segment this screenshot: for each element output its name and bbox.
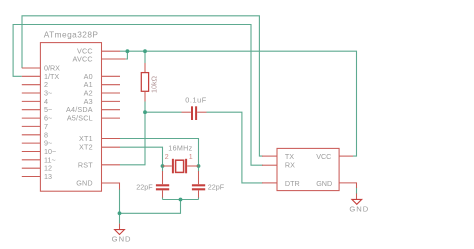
wire net RST: resistor bottom to junction [144,102,146,113]
capacitor C3 22pF bottom lead [198,190,200,197]
svg-text:22pF: 22pF [136,182,153,191]
wire net VCC rail [120,51,357,156]
junction dot resistor top/VCC [143,49,147,53]
resistor R1 bottom lead [144,91,146,101]
capacitor C1 0.1uF right stub [197,111,206,113]
svg-text:16MHz: 16MHz [168,144,192,153]
crystal Y1 left plate [172,159,174,174]
capacitor C3 22pF top lead [198,171,200,184]
ground symbol left triangle [115,230,125,235]
header J1 pin stub TX [262,155,277,157]
ground symbol left stem [119,224,121,230]
wire C2 bottom to gnd rail [162,197,164,200]
capacitor C2 22pF bottom lead [162,190,164,197]
capacitor C1 0.1uF right plate [195,106,197,120]
junction dot RST/0.1uF [143,110,147,114]
svg-text:AVCC: AVCC [73,55,93,64]
ground symbol right triangle [352,199,362,204]
wire net RST: junction to 0.1uF left [145,111,182,113]
crystal Y1 left stub [163,165,172,167]
svg-text:RST: RST [78,160,93,169]
resistor R1 body [141,73,148,92]
svg-text:XT2: XT2 [79,143,93,152]
svg-text:GND: GND [316,179,332,188]
wire C3 bottom to gnd rail [198,197,200,200]
crystal Y1 right stub [187,165,198,167]
wire crystal pin1 to C3 top [198,166,200,172]
wire IC GND pin down to junction [119,189,121,224]
serial header J1 body [277,148,339,190]
header J1 pin stub RX [262,164,277,166]
wire net XT1 to crystal pin 1 [120,139,199,167]
capacitor C1 0.1uF left stub [182,111,191,113]
wire crystal pin2 to C2 top [162,166,164,172]
wire header GND to ground symbol [356,188,358,195]
capacitor C2 22pF bottom plate [156,188,169,190]
junction dot crystal pin 2 [161,164,165,168]
svg-text:XT1: XT1 [79,134,93,143]
capacitor C3 22pF top plate [192,184,205,186]
wire gnd rail under caps [163,199,199,201]
wire net RST: junction down to RST pin [120,112,145,165]
wire AVCC riser [126,51,128,59]
wire net DTR: 0.1uF right to header DTR [207,112,264,183]
svg-text:VCC: VCC [316,152,331,161]
svg-text:2: 2 [165,154,169,161]
wire net RXIN (0/RX to header TX) [22,16,263,156]
capacitor C2 22pF top plate [156,184,169,186]
svg-text:22pF: 22pF [208,182,225,191]
svg-text:1: 1 [189,154,193,161]
svg-text:0.1uF: 0.1uF [185,96,206,105]
IC U1 ATmega328P body [40,43,101,192]
IC U1 left pin stubs (0/RX..13) [22,68,41,177]
junction dot gnd net [118,211,122,215]
capacitor C3 22pF bottom plate [192,188,205,190]
svg-text:10kΩ: 10kΩ [149,75,158,93]
svg-text:GND: GND [349,204,369,213]
ground symbol right stem [356,194,358,200]
svg-text:GND: GND [76,179,93,188]
header J1 pin stub DTR [262,182,277,184]
capacitor C1 0.1uF left plate [191,106,193,120]
crystal Y1 right plate [185,159,187,174]
svg-text:13: 13 [44,172,52,181]
junction dot crystal pin 1 [197,164,201,168]
junction dot cap gnd rail [179,198,183,202]
resistor R1 top lead [144,63,146,73]
junction dot AVCC/VCC [126,49,130,53]
svg-text:GND: GND [112,235,132,244]
svg-text:RX: RX [285,161,295,170]
svg-text:ATmega328P: ATmega328P [44,30,99,40]
IC U1 left pin labels [44,64,60,182]
header J1 pin stub VCC [339,155,353,157]
svg-text:DTR: DTR [285,179,300,188]
wire net RST: resistor top connection [144,51,146,63]
svg-text:A5/SCL: A5/SCL [67,114,93,123]
wire net XT2 to crystal pin 2 [120,147,163,166]
capacitor C2 22pF top lead [162,171,164,184]
crystal Y1 body [176,160,184,172]
header J1 pin stub GND [339,183,356,188]
wire gnd rail drop [120,200,181,214]
IC U1 right pin labels [66,47,93,188]
IC U1 right pin stubs (VCC..GND) [102,51,126,189]
wire net TXOUT (1/TX to header RX) [13,25,263,166]
